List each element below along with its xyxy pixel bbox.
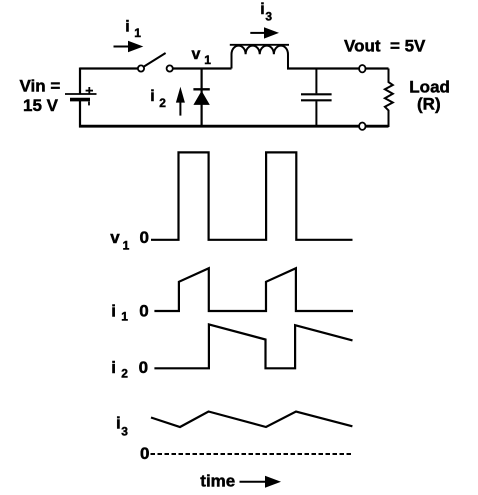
svg-text:i: i [150, 88, 154, 105]
waveform i2 [154, 324, 352, 368]
svg-text:0: 0 [140, 228, 149, 247]
svg-text:2: 2 [159, 96, 166, 110]
arrow i3 [250, 27, 279, 38]
svg-text:v: v [110, 228, 120, 247]
waveform v1 [151, 152, 353, 239]
output terminal top [359, 65, 365, 72]
svg-text:1: 1 [204, 53, 211, 67]
capacitor C1 [301, 69, 332, 128]
zero dashed line [151, 453, 353, 455]
svg-text:2: 2 [121, 366, 128, 380]
wire bottom rail [79, 125, 389, 128]
svg-text:1: 1 [134, 26, 141, 40]
svg-text:i: i [116, 413, 121, 432]
diode D1 [193, 69, 209, 128]
battery Vin [65, 87, 97, 105]
svg-text:v: v [192, 46, 201, 63]
wire switch to diode node to inductor [173, 67, 232, 69]
svg-text:i: i [260, 1, 264, 18]
wire left vertical (top rail to battery +) [79, 68, 81, 94]
inductor L1 [230, 45, 289, 69]
svg-text:(R): (R) [417, 95, 441, 114]
svg-text:0: 0 [139, 301, 148, 320]
output terminal bottom [359, 123, 365, 130]
svg-text:Vin =: Vin = [20, 77, 61, 96]
svg-text:Vout = 5V: Vout = 5V [344, 37, 426, 56]
svg-text:0: 0 [140, 444, 149, 463]
arrow i2 (up) [176, 87, 185, 116]
wire top-left horizontal (battery to switch) [80, 67, 138, 69]
svg-text:3: 3 [265, 9, 272, 23]
resistor Load (R) [385, 69, 393, 128]
waveform i3 [151, 412, 352, 428]
svg-text:1: 1 [121, 310, 128, 324]
svg-text:1: 1 [123, 239, 130, 253]
svg-text:time: time [200, 472, 235, 491]
wire battery - to bottom rail [79, 100, 81, 128]
wire inductor to capacitor node to load [287, 67, 389, 69]
arrow time [240, 476, 282, 488]
svg-text:i: i [111, 358, 116, 377]
svg-text:15 V: 15 V [23, 96, 59, 115]
switch S1 [138, 53, 173, 72]
svg-text:i: i [111, 301, 116, 320]
svg-text:3: 3 [121, 424, 128, 438]
svg-text:0: 0 [139, 358, 148, 377]
waveform i1 [154, 268, 353, 311]
arrow i1 [114, 41, 144, 52]
svg-text:i: i [125, 18, 129, 35]
